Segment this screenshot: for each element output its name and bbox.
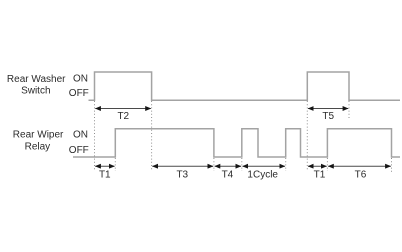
- svg-text:OFF: OFF: [69, 145, 89, 156]
- svg-text:1Cycle: 1Cycle: [247, 170, 278, 181]
- dotted extension line at washer pulse1 rise: [94, 101, 96, 171]
- dimension arrow 1Cycle: [243, 165, 285, 167]
- svg-text:Rear Wiper: Rear Wiper: [13, 129, 64, 140]
- svg-text:T1: T1: [314, 170, 326, 181]
- dotted stub at wiper rise (1Cycle end): [285, 158, 287, 171]
- dotted stub at wiper fall (T6 end): [391, 158, 393, 174]
- svg-text:ON: ON: [73, 129, 88, 140]
- dotted extension line at washer pulse1 fall: [151, 101, 153, 171]
- dimension arrow T2: [95, 108, 151, 110]
- svg-text:T2: T2: [117, 111, 129, 122]
- dotted stub at wiper rise (T4 end): [241, 158, 243, 171]
- wire wiper relay waveform: [73, 129, 400, 157]
- svg-text:ON: ON: [73, 73, 88, 84]
- dimension arrow T3: [152, 165, 213, 167]
- dimension arrow T1 (right): [308, 165, 327, 167]
- svg-text:T5: T5: [322, 111, 334, 122]
- svg-text:T6: T6: [355, 170, 367, 181]
- dotted stub at wiper rise T1 end: [114, 158, 116, 171]
- dotted stub at wiper fall (T3 end): [213, 158, 215, 171]
- dimension arrow T4: [215, 165, 241, 167]
- dotted extension line at washer pulse2 rise: [306, 101, 308, 171]
- svg-text:T1: T1: [99, 170, 111, 181]
- svg-text:T3: T3: [176, 170, 188, 181]
- dotted extension line at washer pulse2 fall: [348, 101, 350, 120]
- dotted stub at wiper rise (T6 start): [326, 158, 328, 171]
- svg-text:Switch: Switch: [21, 85, 50, 96]
- svg-text:T4: T4: [222, 170, 234, 181]
- dimension arrow T1 (left): [95, 165, 114, 167]
- svg-text:Relay: Relay: [25, 141, 51, 152]
- svg-text:OFF: OFF: [69, 88, 89, 99]
- wire washer switch waveform: [89, 72, 401, 100]
- dimension arrow T5: [308, 108, 348, 110]
- svg-text:Rear Washer: Rear Washer: [7, 74, 66, 85]
- dimension arrow T6: [328, 165, 391, 167]
